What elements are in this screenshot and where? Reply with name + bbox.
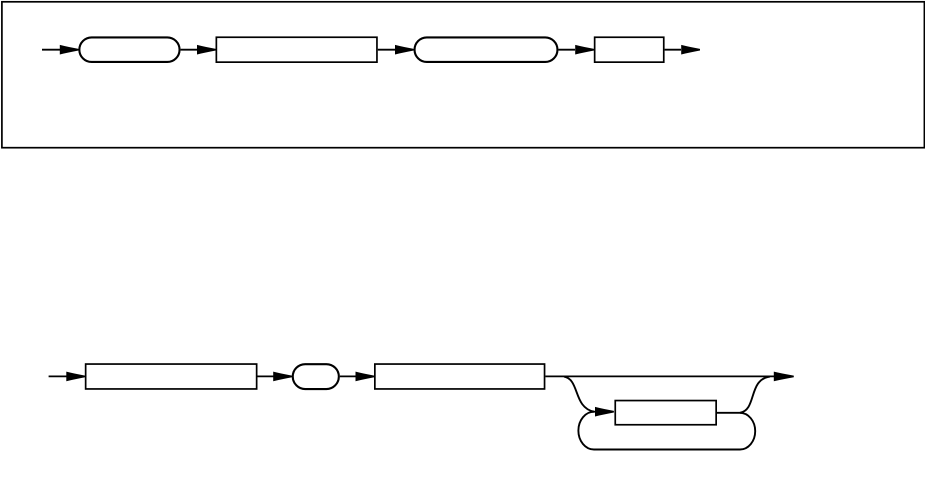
wire T3 to B3 [340,375,357,377]
arrow B1 into box N3 [66,372,85,382]
arrow A2 into box N1 [197,45,216,55]
non-terminal box N2 [595,37,664,62]
non-terminal box N4 [375,364,545,389]
wire N1 to A3 [378,49,395,51]
wire repeat loop bottom [594,449,740,451]
wire repeat loop right arc [740,413,755,450]
wire main bypass line to exit arrow [545,375,774,377]
arrow A5 exit of diagram 1 [681,45,700,55]
non-terminal box N3 [86,364,257,389]
wire repeat loop left arc [578,412,594,450]
wire entry segment into inner box [591,411,597,413]
arrow A4 into box N2 [575,45,594,55]
wire start of diagram 1 [42,49,61,51]
terminal T1 (rounded box) [79,37,179,62]
non-terminal inner box N5 [615,401,716,425]
wire T2 to A4 [559,49,576,51]
wire curve up rejoining bypass line [740,377,770,413]
non-terminal box N1 [216,37,377,62]
terminal T3 (small rounded box) [293,364,339,389]
arrow B2 into terminal T3 [273,372,292,382]
frame box around first syntax diagram [2,2,925,148]
wire curve down from bypass into repeat branch [564,377,594,412]
terminal T2 (rounded box) [415,37,558,62]
wire T1 to A2 [181,49,199,51]
wire N3 to B2 [258,375,275,377]
wire N2 to exit arrow [665,49,681,51]
wire start of diagram 2 [49,375,68,377]
arrow B6 exit of diagram 2 [774,372,794,382]
wire exit segment from inner box [717,412,740,414]
arrow B4 into inner box N5 [595,407,614,417]
arrow A1 into terminal T1 [60,45,79,55]
arrow B3 into box N4 [356,372,375,382]
arrow A3 into terminal T2 [395,45,414,55]
